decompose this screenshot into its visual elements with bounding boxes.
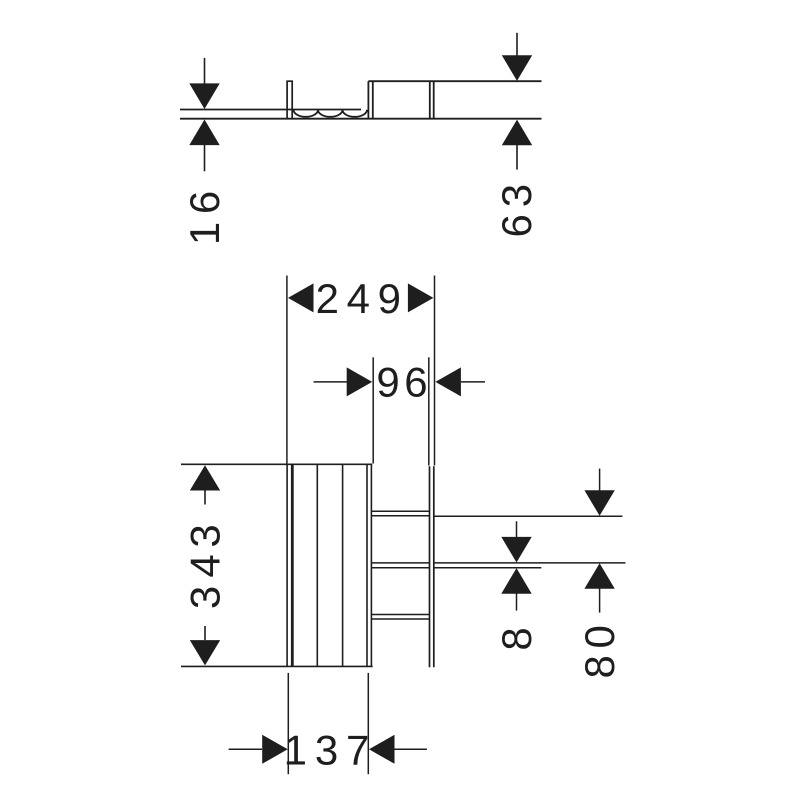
svg-text:9: 9 — [378, 275, 401, 322]
svg-text:8: 8 — [493, 627, 540, 650]
svg-text:3: 3 — [315, 727, 338, 774]
svg-text:1: 1 — [284, 727, 307, 774]
svg-text:3: 3 — [493, 184, 540, 207]
svg-text:9: 9 — [376, 358, 399, 405]
svg-text:2: 2 — [316, 275, 339, 322]
svg-text:3: 3 — [181, 586, 228, 609]
svg-text:6: 6 — [181, 191, 228, 214]
svg-text:1: 1 — [181, 222, 228, 245]
svg-text:6: 6 — [493, 214, 540, 237]
svg-text:3: 3 — [181, 524, 228, 547]
svg-text:4: 4 — [181, 554, 228, 577]
svg-text:7: 7 — [346, 727, 369, 774]
svg-text:8: 8 — [576, 655, 623, 678]
svg-text:4: 4 — [347, 275, 370, 322]
svg-text:0: 0 — [576, 625, 623, 648]
svg-text:6: 6 — [404, 358, 427, 405]
